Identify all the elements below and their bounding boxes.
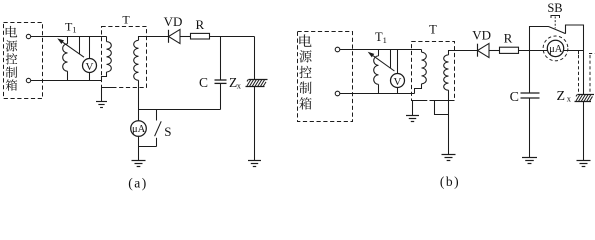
voltmeter V branch lower (b)	[397, 88, 399, 94]
svg-text:C: C	[199, 75, 208, 90]
terminal node bottom (b)	[335, 91, 340, 96]
shield ground tap (a)	[102, 87, 117, 89]
voltmeter V (a)	[83, 59, 97, 73]
ground under transformer box (b)	[406, 115, 419, 117]
svg-text:x: x	[237, 80, 242, 90]
wire resistor to corner (a)	[210, 36, 255, 38]
transformer T shield box (b)	[412, 42, 455, 101]
svg-text:Z: Z	[557, 89, 566, 104]
microammeter shield dashed circle (b)	[543, 36, 568, 61]
wire top rail (b)	[340, 49, 422, 51]
ground under meter (a)	[138, 147, 140, 161]
ground under capacitor (b)	[522, 157, 537, 159]
autotransformer T1 winding (b)	[378, 50, 380, 56]
wire meter to right branch (b)	[564, 50, 584, 52]
switch S (a)	[156, 110, 158, 121]
wire microammeter lower (a)	[138, 136, 140, 146]
diode VD (a)	[168, 30, 170, 43]
svg-text:μA: μA	[549, 44, 563, 55]
svg-text:(a): (a)	[128, 175, 147, 190]
ground under secondary (b)	[442, 154, 456, 156]
diode VD (b)	[477, 44, 479, 57]
capacitor C branch upper wire (a)	[220, 37, 222, 81]
capacitor C branch lower (b)	[529, 98, 531, 158]
svg-text:(b): (b)	[440, 174, 460, 189]
svg-text:VD: VD	[472, 27, 491, 42]
wire bottom rail (a)	[31, 80, 102, 82]
pushbutton SB loop right (b)	[566, 25, 584, 51]
ground under Zx (b)	[577, 160, 591, 162]
transformer T primary winding (a)	[106, 37, 108, 42]
terminal node bottom (a)	[26, 78, 30, 82]
voltmeter V (b)	[391, 74, 405, 88]
test object Zx hatched block (a)	[249, 79, 268, 81]
label 电源控制箱 vertical text (a)	[6, 26, 17, 37]
resistor R (b)	[500, 47, 519, 53]
power control box (b) 电源控制箱	[298, 32, 353, 122]
shield tap to secondary (b)	[435, 101, 449, 115]
autotransformer T1 wiper arrow (a)	[79, 37, 81, 55]
wire bottom rail (b)	[340, 93, 415, 95]
autotransformer T1 wiper arrow (b)	[390, 50, 392, 69]
resistor R (a)	[191, 33, 210, 39]
label 电源控制箱 vertical text (b)	[299, 34, 311, 46]
capacitor C (a)	[215, 79, 227, 81]
wire right branch down to Zx (a)	[254, 37, 256, 80]
wire top rail (a)	[31, 36, 107, 38]
guard dashed line right (b)	[589, 55, 591, 93]
guard dashed line left (b)	[578, 55, 580, 92]
ground under transformer box (a)	[96, 101, 107, 103]
wire right branch down (b)	[583, 51, 585, 95]
voltmeter V branch wire lower (a)	[89, 73, 91, 81]
capacitor C branch lower wire (a)	[220, 83, 222, 109]
pushbutton SB blade (b)	[549, 27, 566, 34]
power control box (a) 电源控制箱	[4, 23, 43, 99]
ground under Zx (a)	[248, 160, 261, 162]
svg-text:T: T	[122, 13, 130, 27]
wire resistor to meter (b)	[519, 50, 548, 52]
voltmeter V branch upper (b)	[397, 50, 399, 74]
pushbutton SB loop left (b)	[530, 27, 549, 51]
transformer T secondary winding (a)	[139, 37, 169, 41]
microammeter uA (a)	[131, 121, 147, 137]
wire to microammeter (a)	[138, 110, 140, 121]
svg-text:C: C	[510, 90, 519, 105]
svg-text:SB: SB	[547, 1, 562, 15]
capacitor C branch upper (b)	[529, 51, 531, 94]
svg-text:S: S	[164, 124, 171, 139]
wire Zx to ground (a)	[254, 87, 256, 161]
svg-text:VD: VD	[164, 14, 183, 29]
svg-text:x: x	[567, 93, 572, 103]
wire Zx to ground (b)	[583, 102, 585, 161]
wire diode to resistor (a)	[180, 36, 191, 38]
pushbutton SB contact stub (b)	[565, 25, 567, 34]
pushbutton SB cap (b)	[551, 16, 560, 19]
transformer T secondary winding (b)	[449, 51, 478, 55]
autotransformer T1 winding (a)	[67, 37, 69, 44]
shield ground stem (b)	[412, 101, 414, 116]
terminal node top (b)	[335, 47, 340, 52]
svg-text:T: T	[429, 23, 437, 37]
microammeter uA (b)	[547, 40, 563, 56]
terminal node top (a)	[26, 34, 30, 38]
transformer T primary winding (b)	[421, 50, 423, 53]
wire diode to resistor (b)	[489, 50, 500, 52]
transformer T shield box (a)	[102, 27, 147, 88]
svg-text:V: V	[86, 61, 94, 73]
svg-text:V: V	[394, 76, 402, 88]
wire bottom of meter-switch (a)	[139, 146, 157, 148]
capacitor C (b)	[521, 92, 540, 94]
test object Zx hatched block (b)	[578, 94, 595, 96]
svg-text:μA: μA	[132, 124, 146, 135]
voltmeter V branch wire upper (a)	[89, 37, 91, 59]
svg-text:R: R	[195, 17, 204, 32]
shield box bottom solid segment (b)	[412, 100, 427, 102]
wire bottom node horizontal (a)	[139, 109, 221, 111]
svg-text:R: R	[504, 30, 513, 45]
